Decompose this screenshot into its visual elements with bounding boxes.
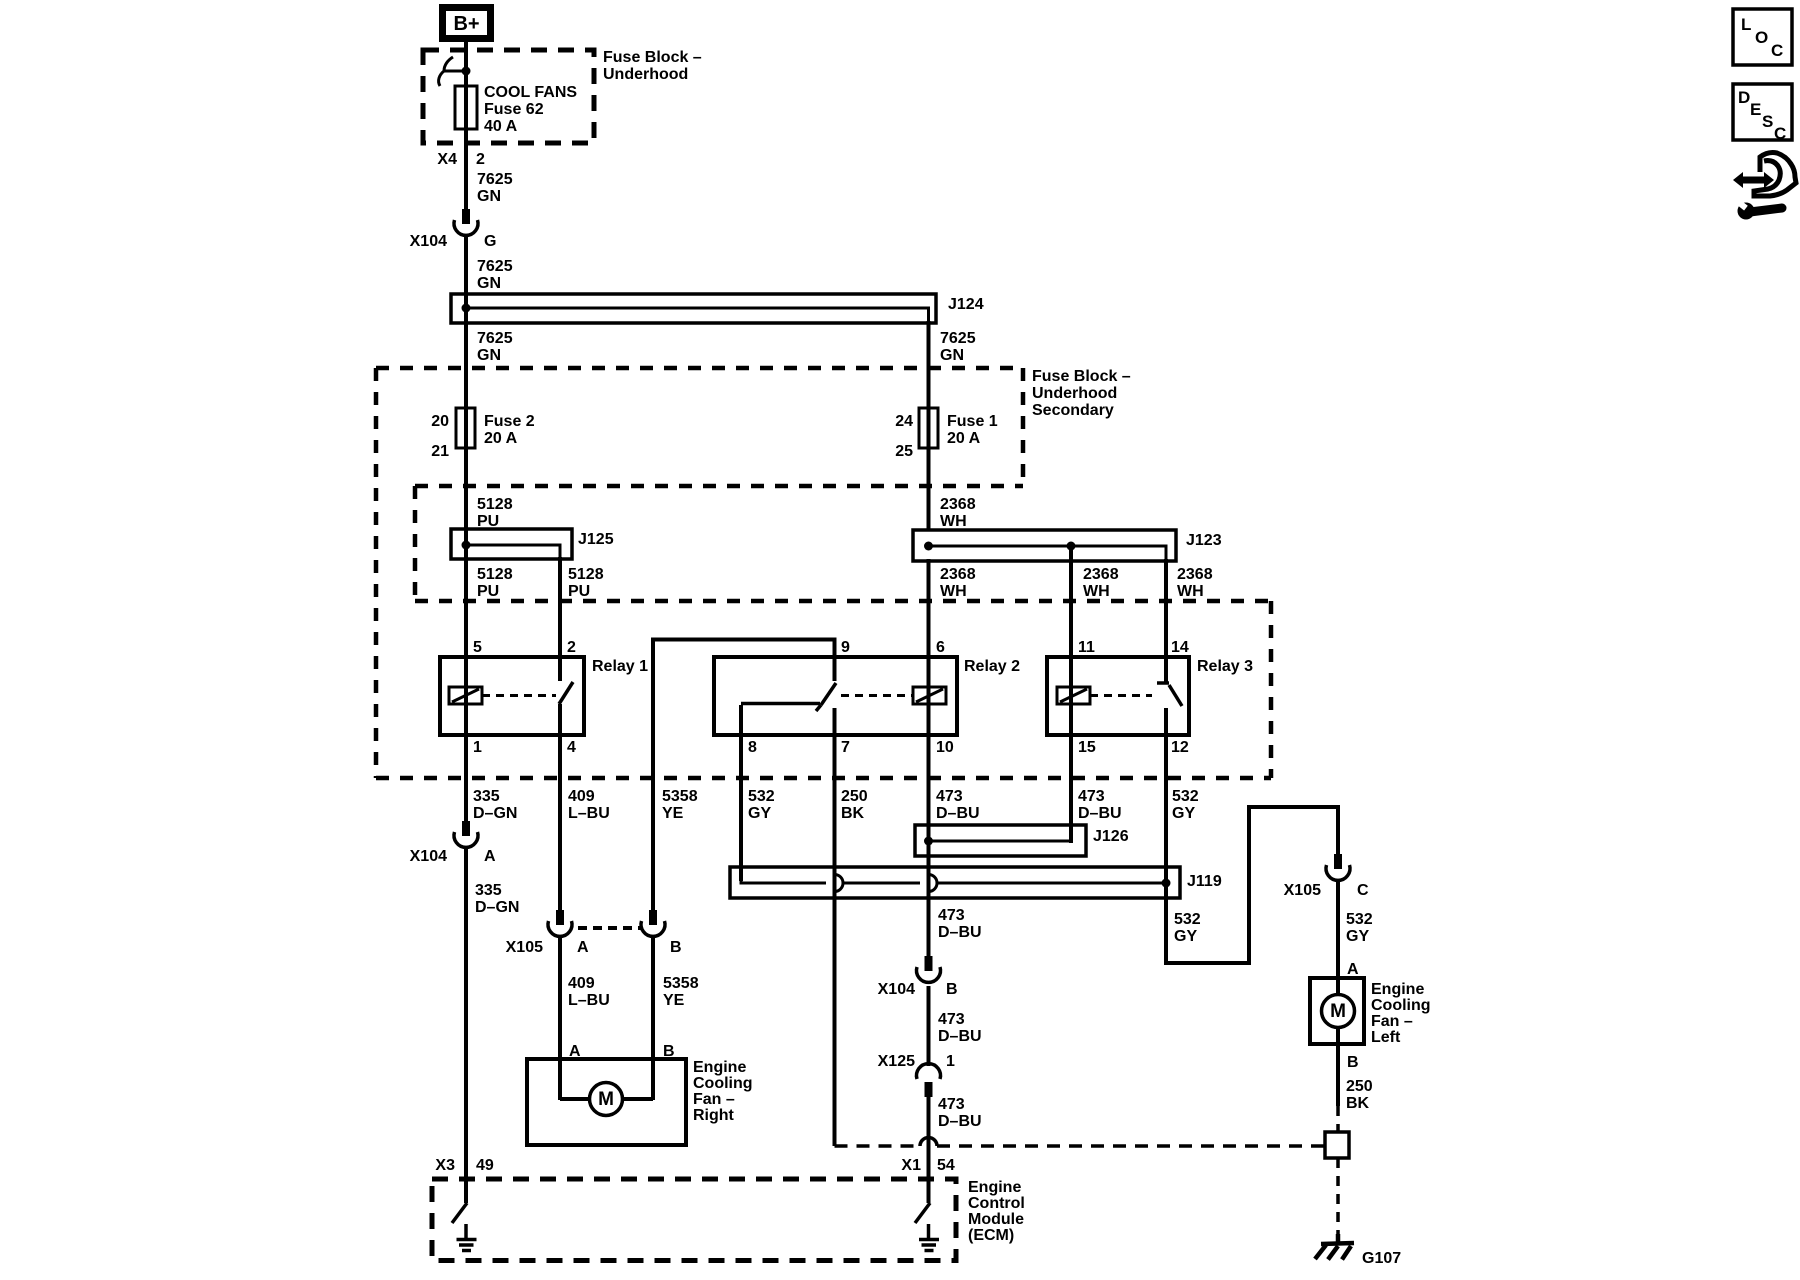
svg-text:2368: 2368 [940,496,976,513]
svg-text:Fuse 1: Fuse 1 [947,413,998,430]
svg-text:2368: 2368 [1083,566,1119,583]
svg-text:WH: WH [1083,583,1110,600]
svg-text:Relay 1: Relay 1 [592,658,648,675]
svg-text:20 A: 20 A [947,430,981,447]
svg-text:C: C [1771,41,1783,60]
svg-text:A: A [1347,961,1359,978]
svg-text:(ECM): (ECM) [968,1227,1014,1244]
svg-text:20 A: 20 A [484,430,518,447]
svg-text:WH: WH [940,583,967,600]
svg-text:409: 409 [568,788,595,805]
svg-text:Control: Control [968,1195,1025,1212]
svg-text:C: C [1774,124,1786,143]
svg-text:B: B [946,981,958,998]
svg-text:473: 473 [1078,788,1105,805]
svg-text:M: M [598,1089,614,1110]
svg-text:Fan –: Fan – [693,1091,735,1108]
svg-text:Right: Right [693,1107,735,1124]
svg-text:24: 24 [895,413,913,430]
svg-text:Underhood: Underhood [1032,385,1117,402]
svg-text:YE: YE [663,992,685,1009]
svg-text:7: 7 [841,739,850,756]
svg-text:5358: 5358 [662,788,698,805]
svg-text:Engine: Engine [693,1059,746,1076]
svg-text:O: O [1755,28,1768,47]
svg-text:5128: 5128 [568,566,604,583]
svg-text:Cooling: Cooling [693,1075,753,1092]
svg-text:PU: PU [477,583,499,600]
svg-text:Fan –: Fan – [1371,1013,1413,1030]
svg-text:12: 12 [1171,739,1189,756]
svg-text:49: 49 [476,1157,494,1174]
svg-text:X4: X4 [437,151,457,168]
svg-text:C: C [1357,882,1369,899]
svg-text:B: B [1347,1054,1359,1071]
svg-text:X1: X1 [901,1157,921,1174]
svg-text:473: 473 [936,788,963,805]
svg-text:335: 335 [473,788,500,805]
svg-text:GN: GN [477,347,501,364]
svg-text:Underhood: Underhood [603,66,688,83]
svg-text:2368: 2368 [940,566,976,583]
svg-text:L: L [1741,15,1751,34]
svg-text:Engine: Engine [1371,981,1424,998]
svg-text:Secondary: Secondary [1032,402,1114,419]
svg-text:J126: J126 [1093,828,1129,845]
svg-text:D–GN: D–GN [473,805,517,822]
svg-text:54: 54 [937,1157,955,1174]
svg-text:X105: X105 [1284,882,1321,899]
svg-text:7625: 7625 [477,258,513,275]
svg-text:5358: 5358 [663,975,699,992]
svg-text:E: E [1750,100,1761,119]
svg-text:WH: WH [940,513,967,530]
svg-text:20: 20 [431,413,449,430]
svg-text:1: 1 [473,739,482,756]
svg-text:GY: GY [1174,928,1197,945]
svg-text:5: 5 [473,639,482,656]
svg-text:BK: BK [841,805,865,822]
svg-text:B: B [670,939,682,956]
svg-text:A: A [569,1043,581,1060]
svg-text:473: 473 [938,1096,965,1113]
svg-text:X105: X105 [506,939,543,956]
svg-text:X3: X3 [435,1157,455,1174]
svg-text:1: 1 [946,1053,955,1070]
svg-text:7625: 7625 [940,330,976,347]
svg-text:2: 2 [476,151,485,168]
svg-text:D: D [1738,88,1750,107]
svg-text:GN: GN [940,347,964,364]
svg-text:J123: J123 [1186,532,1222,549]
svg-text:G: G [484,233,496,250]
svg-text:G107: G107 [1362,1250,1401,1267]
svg-text:GY: GY [748,805,771,822]
svg-text:X104: X104 [410,233,447,250]
svg-text:Fuse 62: Fuse 62 [484,101,544,118]
svg-text:Relay 2: Relay 2 [964,658,1020,675]
svg-text:B: B [663,1043,675,1060]
svg-text:D–BU: D–BU [936,805,980,822]
svg-text:COOL FANS: COOL FANS [484,84,577,101]
svg-text:473: 473 [938,1011,965,1028]
svg-text:Cooling: Cooling [1371,997,1431,1014]
svg-text:J125: J125 [578,531,614,548]
svg-text:GN: GN [477,275,501,292]
svg-text:L–BU: L–BU [568,992,610,1009]
svg-text:532: 532 [748,788,775,805]
svg-text:532: 532 [1172,788,1199,805]
svg-text:Engine: Engine [968,1179,1021,1196]
svg-text:250: 250 [1346,1078,1373,1095]
svg-text:9: 9 [841,639,850,656]
svg-text:335: 335 [475,882,502,899]
svg-text:BK: BK [1346,1095,1370,1112]
svg-text:A: A [577,939,589,956]
svg-text:D–BU: D–BU [938,924,982,941]
svg-text:5128: 5128 [477,566,513,583]
svg-text:Left: Left [1371,1029,1401,1046]
svg-text:X125: X125 [878,1053,915,1070]
svg-text:532: 532 [1346,911,1373,928]
svg-text:5128: 5128 [477,496,513,513]
svg-text:GY: GY [1346,928,1369,945]
svg-text:7625: 7625 [477,171,513,188]
svg-text:473: 473 [938,907,965,924]
svg-text:10: 10 [936,739,954,756]
svg-text:14: 14 [1171,639,1189,656]
svg-text:8: 8 [748,739,757,756]
svg-text:15: 15 [1078,739,1096,756]
svg-text:L–BU: L–BU [568,805,610,822]
svg-text:GN: GN [477,188,501,205]
svg-text:X104: X104 [410,848,447,865]
svg-text:532: 532 [1174,911,1201,928]
svg-text:WH: WH [1177,583,1204,600]
svg-text:J124: J124 [948,296,984,313]
svg-text:X104: X104 [878,981,915,998]
svg-text:Fuse 2: Fuse 2 [484,413,535,430]
svg-text:2: 2 [567,639,576,656]
svg-text:Fuse Block –: Fuse Block – [1032,368,1131,385]
svg-text:7625: 7625 [477,330,513,347]
svg-text:40 A: 40 A [484,118,518,135]
svg-text:2368: 2368 [1177,566,1213,583]
svg-text:A: A [484,848,496,865]
svg-text:D–BU: D–BU [938,1028,982,1045]
svg-text:4: 4 [567,739,576,756]
svg-text:25: 25 [895,443,913,460]
svg-text:J119: J119 [1187,873,1222,890]
svg-text:D–BU: D–BU [1078,805,1122,822]
svg-text:Module: Module [968,1211,1024,1228]
svg-text:D–BU: D–BU [938,1113,982,1130]
svg-text:11: 11 [1078,639,1095,656]
svg-text:S: S [1762,112,1773,131]
svg-text:Fuse Block –: Fuse Block – [603,49,702,66]
svg-text:PU: PU [477,513,499,530]
svg-text:409: 409 [568,975,595,992]
svg-text:Relay 3: Relay 3 [1197,658,1253,675]
svg-text:6: 6 [936,639,945,656]
svg-text:250: 250 [841,788,868,805]
svg-text:GY: GY [1172,805,1195,822]
svg-text:D–GN: D–GN [475,899,519,916]
svg-text:M: M [1330,1001,1346,1022]
svg-text:21: 21 [431,443,449,460]
svg-text:YE: YE [662,805,684,822]
svg-text:PU: PU [568,583,590,600]
svg-text:B+: B+ [453,13,479,35]
